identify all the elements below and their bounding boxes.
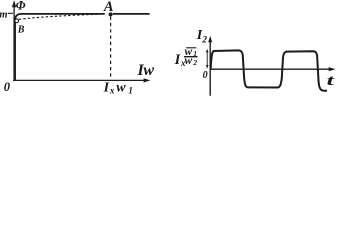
tick at Phi_m level — [8, 12, 13, 14]
left graph: flux axis arrowhead — [12, 0, 16, 7]
svg-text:x: x — [109, 86, 115, 96]
svg-text:Φ: Φ — [16, 0, 26, 12]
fraction bar — [184, 56, 198, 58]
left graph: flux axis (vertical) — [13, 5, 15, 82]
ideal magnetization curve (vertical rise + saturation line) — [15, 14, 150, 81]
right graph: I2 axis (vertical) — [209, 40, 211, 96]
dashed drop line from A — [110, 17, 112, 80]
svg-text:0: 0 — [203, 70, 208, 81]
svg-text:t: t — [327, 73, 336, 89]
svg-text:2: 2 — [192, 58, 197, 67]
point A (dot on saturation line) — [109, 12, 113, 16]
svg-text:I: I — [103, 81, 110, 96]
svg-text:w: w — [116, 81, 126, 96]
real magnetization curve (dotted, approaches saturation) — [19, 14, 100, 19]
horizontal axis arrowhead — [144, 78, 151, 82]
svg-text:m: m — [0, 9, 8, 20]
svg-text:2: 2 — [201, 35, 207, 45]
left graph: magnetizing-force axis (horizontal) — [13, 79, 147, 81]
output current waveform (square wave) — [211, 50, 327, 90]
time axis arrowhead — [329, 67, 336, 71]
svg-text:0: 0 — [4, 80, 11, 94]
svg-text:A: A — [103, 0, 114, 15]
amplitude dimension arrow (I2 peak value) — [206, 51, 208, 67]
right graph: time axis (horizontal) — [210, 68, 332, 70]
svg-text:B: B — [17, 25, 25, 36]
I2 axis arrowhead — [208, 36, 212, 43]
svg-text:1: 1 — [128, 86, 133, 96]
svg-text:w: w — [143, 62, 154, 79]
short dash above w1 (level mark) — [186, 47, 196, 49]
svg-text:w: w — [185, 55, 193, 67]
point B (knee, open circle) — [15, 19, 19, 23]
